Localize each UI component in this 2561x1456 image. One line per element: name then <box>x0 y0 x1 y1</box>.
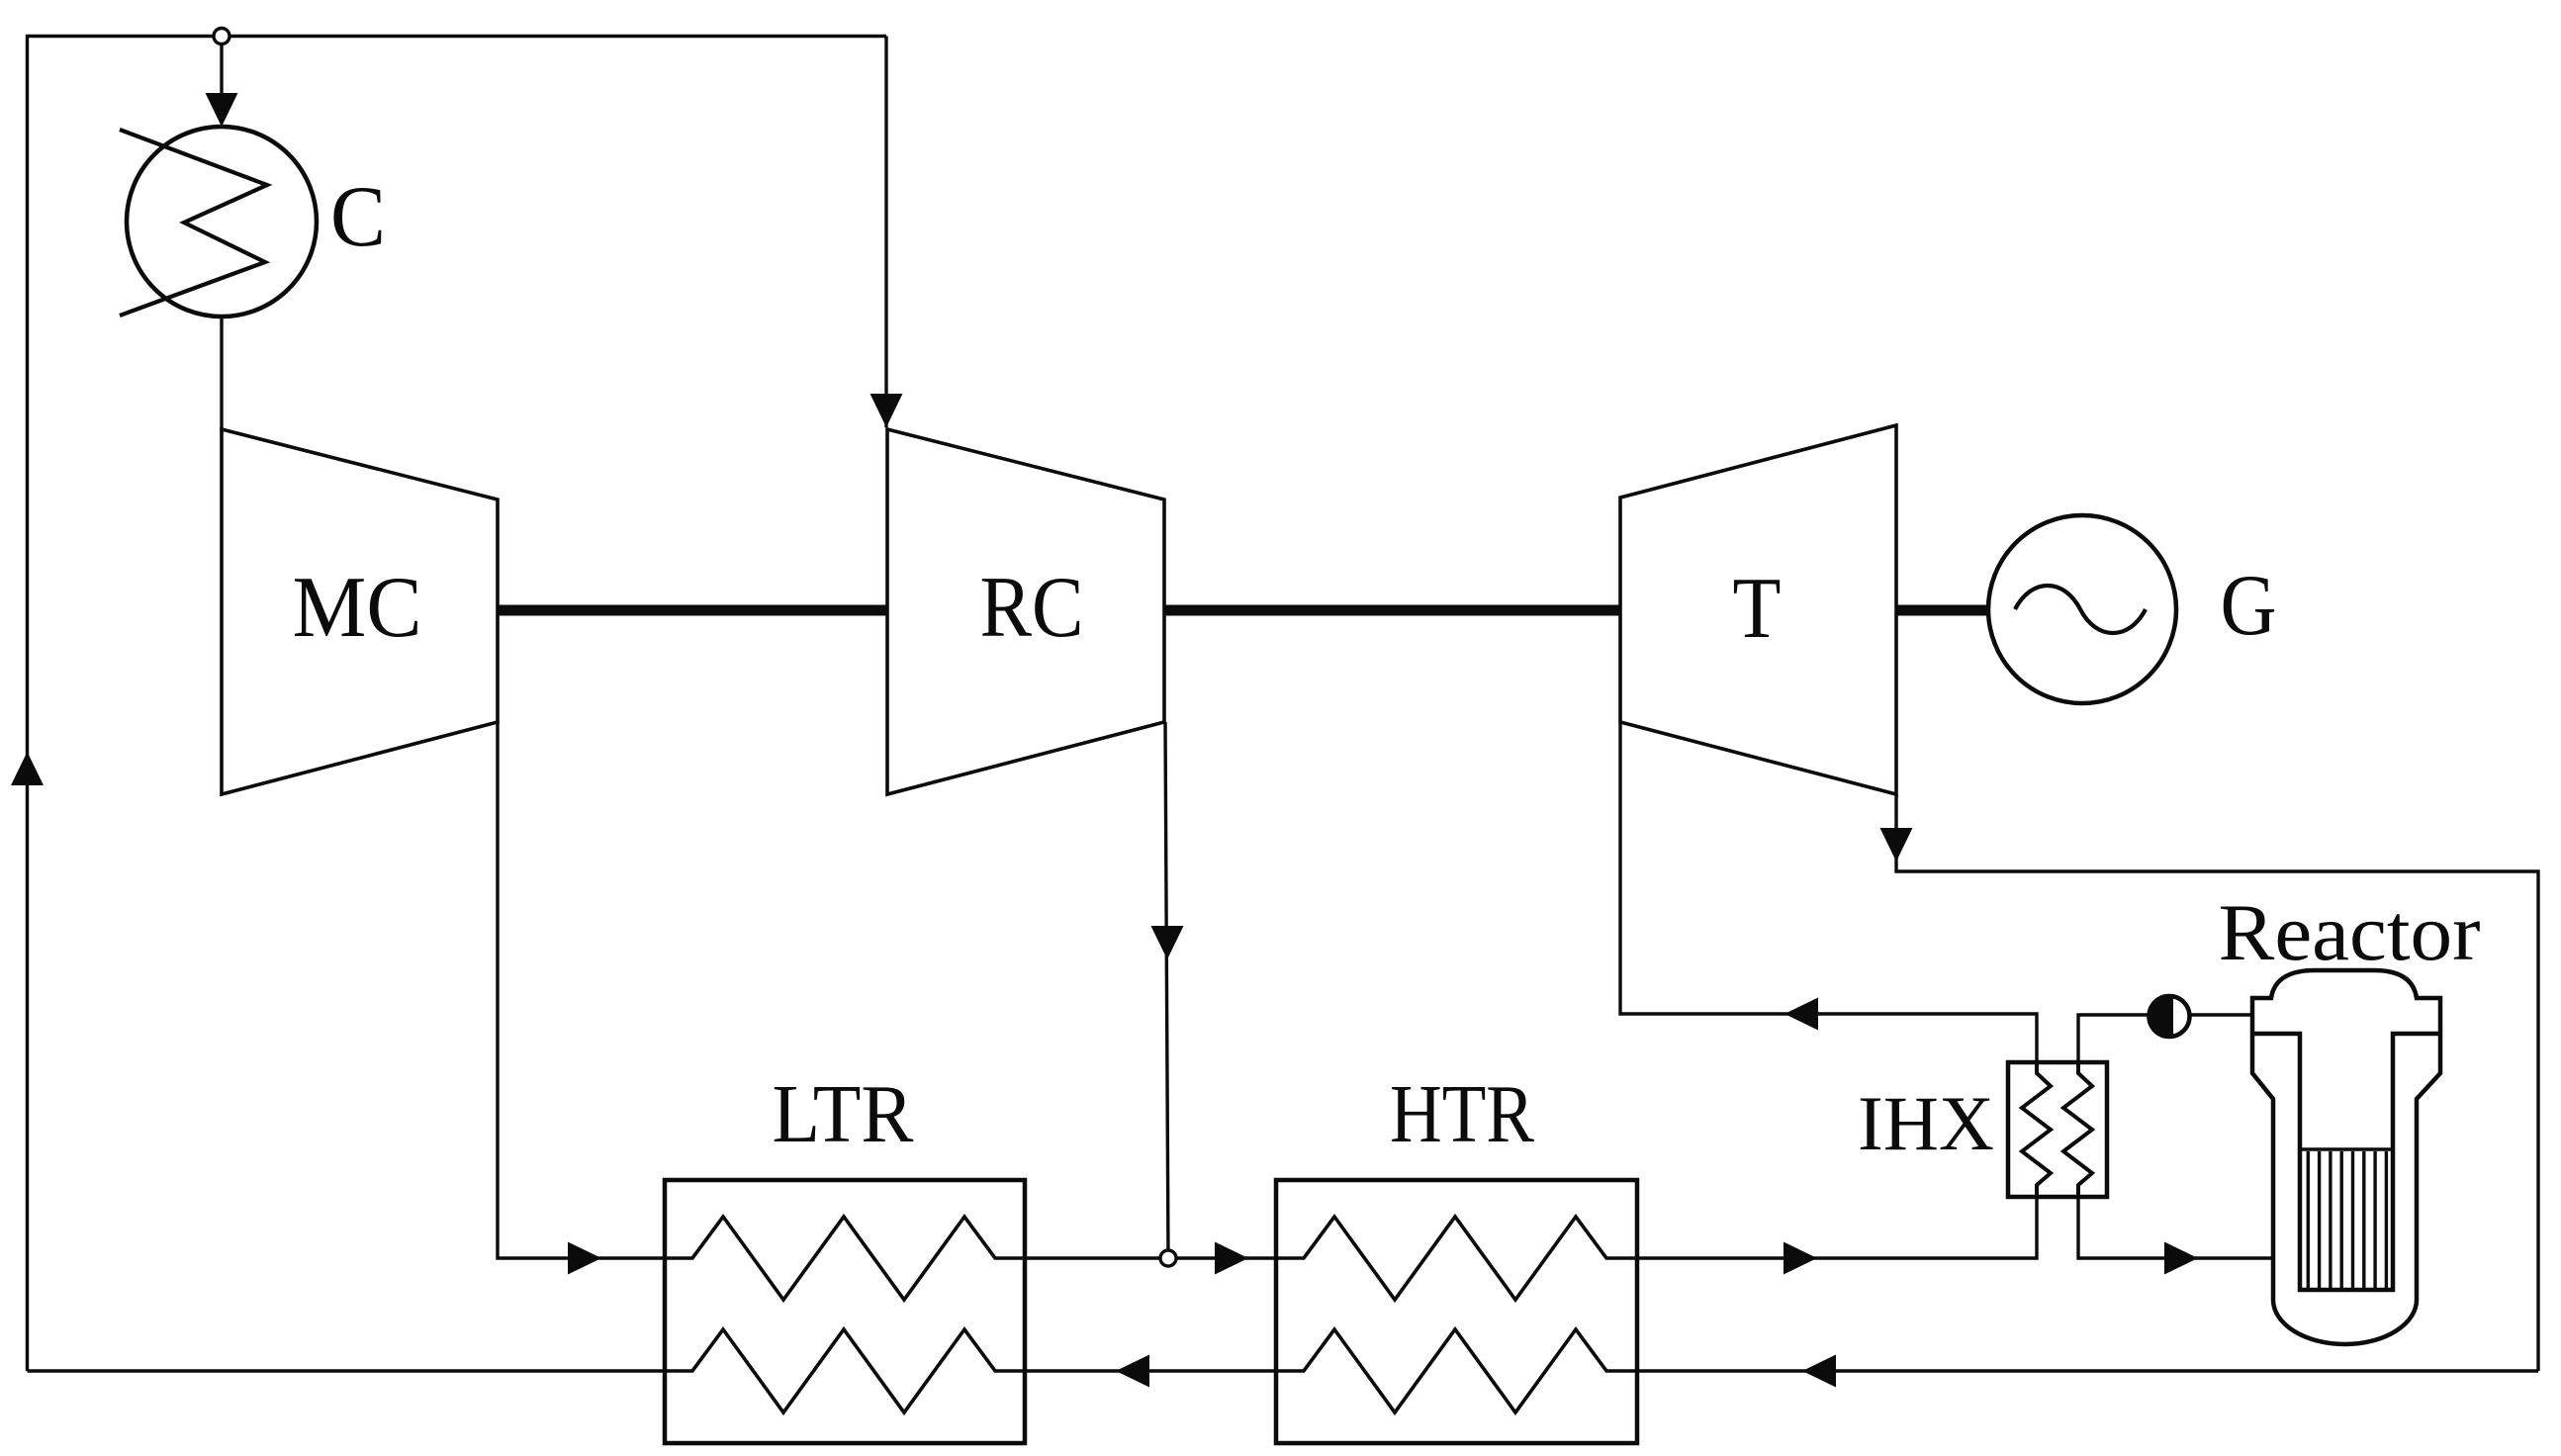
arrow hot return to HTR <box>1802 1355 1836 1388</box>
wire HTR to LTR bottom segment <box>1025 1369 1276 1372</box>
reactor inner barrel <box>2252 1034 2440 1290</box>
heat exchanger IHX box <box>2008 1062 2107 1197</box>
svg-text:Reactor: Reactor <box>2219 887 2481 977</box>
arrow toward turbine inlet <box>1784 998 1818 1031</box>
svg-text:LTR: LTR <box>773 1068 914 1160</box>
svg-text:RC: RC <box>980 560 1084 656</box>
recuperator LTR box <box>665 1180 1025 1443</box>
LTR bottom coil <box>665 1329 1025 1412</box>
svg-text:C: C <box>330 169 386 265</box>
svg-text:T: T <box>1733 561 1782 657</box>
svg-text:HTR: HTR <box>1390 1068 1534 1160</box>
node split to cooler <box>214 29 229 45</box>
wire HTR to IHX cold line <box>1637 1197 2037 1258</box>
wire IHX primary return to reactor bottom <box>2078 1197 2273 1258</box>
IHX right coil <box>2063 1062 2092 1197</box>
generator G <box>1988 515 2176 703</box>
LTR top coil <box>665 1217 1025 1300</box>
wire top rail from left riser to RC drop <box>28 37 887 1372</box>
node split LTR-HTR <box>1160 1250 1176 1266</box>
arrow turbine exhaust down <box>1880 828 1913 862</box>
svg-text:IHX: IHX <box>1858 1080 1994 1166</box>
wire turbine exhaust to right riser <box>1896 794 2538 1371</box>
IHX left coil <box>2022 1062 2051 1197</box>
wire MC outlet to LTR <box>498 721 665 1258</box>
compressor RC <box>887 429 1164 794</box>
HTR bottom coil <box>1276 1329 1637 1412</box>
wire RC outlet to split node <box>1165 722 1168 1258</box>
recuperator HTR box <box>1276 1180 1637 1443</box>
cooler C symbol <box>120 127 317 317</box>
shaft MC to RC <box>498 605 887 616</box>
wire IHX primary to pump and reactor <box>2078 1015 2252 1062</box>
arrow IHX to reactor <box>2164 1242 2198 1275</box>
wire RC inlet drop <box>884 37 887 428</box>
arrow into RC inlet <box>870 394 903 427</box>
arrow node to HTR <box>1215 1242 1248 1275</box>
arrow HTR to IHX <box>1784 1242 1817 1275</box>
turbine T <box>1620 425 1896 794</box>
arrow left riser up <box>11 752 44 785</box>
wire LTR to HTR top rail <box>1025 1256 1276 1259</box>
arrow MC to LTR <box>568 1242 601 1275</box>
compressor MC <box>222 429 498 794</box>
arrow HTR to LTR bottom <box>1116 1355 1149 1388</box>
HTR top coil <box>1276 1217 1637 1300</box>
wire hot return from right riser to HTR <box>1637 1369 2538 1372</box>
shaft T to G <box>1896 605 1991 616</box>
arrow into cooler <box>206 93 238 127</box>
shaft RC to T <box>1164 605 1620 616</box>
wire cooler to MC <box>220 317 223 431</box>
wire bottom rail left segment <box>28 1369 666 1372</box>
arrow RC outlet down <box>1151 926 1184 959</box>
svg-text:G: G <box>2221 558 2277 654</box>
wire turbine inlet from IHX <box>1620 722 2037 1062</box>
svg-text:MC: MC <box>293 560 422 656</box>
reactor vessel outline <box>2252 970 2440 1344</box>
wire node to cooler <box>220 37 223 104</box>
pump on primary loop <box>2149 995 2190 1038</box>
reactor core hatched block <box>2300 1149 2393 1288</box>
